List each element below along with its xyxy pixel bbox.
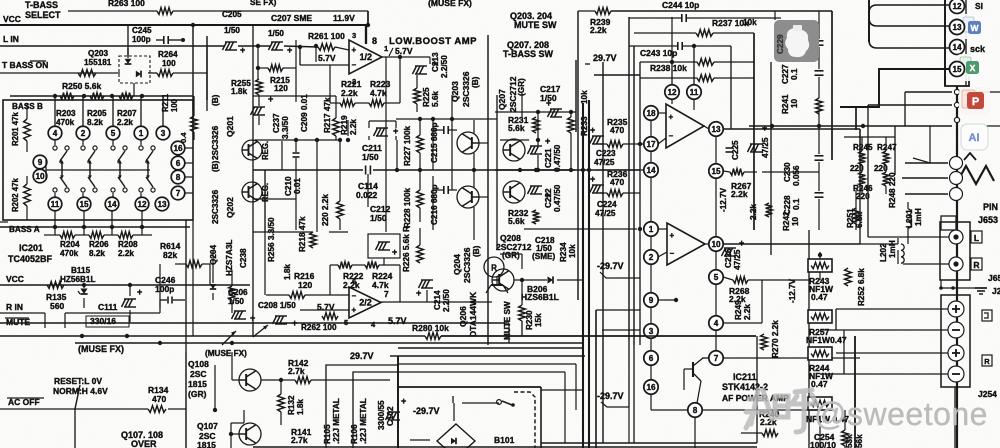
wire [582, 103, 584, 448]
wire [855, 107, 857, 130]
wire right pin column [715, 136, 717, 164]
wire vertical [185, 220, 187, 352]
pin 14 IC205 [644, 163, 658, 177]
wire 29.7 rail [495, 111, 576, 113]
svg-text:2.2k: 2.2k [743, 304, 752, 320]
wire [495, 169, 575, 171]
svg-text:R256 3.3/50: R256 3.3/50 [267, 217, 276, 262]
wire [702, 357, 709, 359]
wire branch pin 12 [869, 5, 949, 13]
pin 7 IC211 [709, 351, 723, 365]
wire branch pin 13 [869, 18, 949, 26]
svg-text:−: − [670, 249, 675, 258]
svg-text:2.2/50: 2.2/50 [442, 289, 451, 312]
svg-text:+: + [137, 287, 142, 297]
wire vertical [231, 270, 233, 286]
wire [904, 92, 906, 126]
svg-text:9: 9 [649, 296, 654, 305]
svg-text:16: 16 [646, 383, 656, 392]
svg-text:C214: C214 [433, 290, 442, 310]
svg-text:3.3/50: 3.3/50 [281, 116, 290, 139]
svg-text:5.7V: 5.7V [395, 46, 413, 56]
svg-text:2.2k: 2.2k [349, 119, 358, 135]
svg-text:8: 8 [693, 406, 698, 415]
wire vertical [281, 141, 283, 170]
svg-text:NORM:H 4.6V: NORM:H 4.6V [53, 386, 108, 396]
svg-text:C245: C245 [132, 26, 152, 35]
svg-text:R218 47k: R218 47k [298, 216, 307, 252]
svg-text:10k: 10k [568, 244, 577, 258]
wire [628, 340, 630, 407]
svg-text:R202 47k: R202 47k [11, 178, 20, 212]
svg-text:47/25: 47/25 [595, 209, 616, 218]
svg-text:10k: 10k [580, 90, 589, 104]
diode B206 [548, 276, 554, 283]
svg-text:-12.7V: -12.7V [719, 187, 728, 212]
pin 3 IC201 [156, 126, 170, 140]
icon AI [961, 124, 988, 150]
svg-text:11.9V: 11.9V [333, 13, 355, 23]
chevron mark [964, 153, 976, 160]
box outline left [753, 33, 755, 230]
svg-text:R226 5.6k R: R226 5.6k R [402, 226, 411, 272]
wire [398, 355, 585, 357]
svg-text:C244 10p: C244 10p [662, 0, 699, 10]
pin 15 redraw [950, 62, 965, 77]
svg-text:X: X [970, 63, 976, 73]
resistor R253 vertical [229, 286, 236, 300]
wire vertical [897, 250, 899, 264]
svg-text:REG.: REG. [261, 141, 270, 160]
wire [500, 139, 529, 141]
svg-text:1: 1 [139, 129, 144, 138]
RCA jack L [949, 230, 963, 244]
wire [261, 379, 281, 381]
pin 15 [950, 62, 965, 77]
wire [658, 299, 676, 301]
resistor R250 row b [90, 93, 104, 100]
wire pin11 feed [693, 46, 695, 85]
svg-text:R263 100: R263 100 [108, 0, 145, 8]
svg-text:R208: R208 [118, 240, 138, 249]
watermark zhihu sweetone [746, 390, 817, 432]
svg-text:R248 220: R248 220 [888, 172, 897, 208]
svg-text:+: + [669, 112, 674, 121]
wire [44, 234, 60, 236]
svg-text:R206: R206 [89, 240, 109, 249]
wire vertical [473, 120, 475, 133]
wire VCC bus [0, 24, 368, 26]
svg-text:1/50: 1/50 [268, 29, 284, 38]
svg-text:-29.7V: -29.7V [597, 391, 624, 401]
svg-text:-29.7V: -29.7V [597, 261, 624, 271]
terminal minus 1 [948, 322, 964, 338]
svg-text:Q108: Q108 [188, 359, 209, 369]
wire [577, 11, 579, 300]
svg-text:3: 3 [649, 327, 654, 336]
wire vertical [367, 174, 369, 207]
arrow MUSE 2 [222, 331, 236, 345]
RCA jack box [940, 222, 970, 280]
wire vertical [487, 35, 489, 345]
svg-text:47/25: 47/25 [761, 137, 770, 158]
wire branch pin 14 [869, 40, 949, 48]
svg-text:R250 5.6k: R250 5.6k [62, 81, 101, 91]
svg-text:7: 7 [384, 289, 389, 299]
svg-text:Q204: Q204 [452, 254, 462, 275]
svg-text:1/50: 1/50 [228, 297, 244, 306]
wire [596, 309, 640, 311]
svg-text:2SC3326: 2SC3326 [461, 71, 471, 107]
capacitor C214 [419, 280, 423, 288]
resistor on T BASS ON line [78, 70, 96, 77]
wire [859, 129, 861, 244]
svg-text:R238 10k: R238 10k [650, 63, 687, 73]
svg-text:DTA144WK: DTA144WK [468, 291, 478, 337]
label R box [971, 258, 982, 270]
svg-text:(GR): (GR) [188, 389, 207, 399]
wire [843, 330, 845, 353]
node diamond [954, 102, 959, 107]
junction [520, 278, 524, 282]
pin 4 IC205 [709, 316, 723, 330]
pin 1 IC201 [134, 126, 148, 140]
svg-text:R252 6.8k: R252 6.8k [857, 268, 866, 306]
pin 16 IC211 [644, 380, 658, 394]
svg-text:2.7k: 2.7k [291, 435, 308, 445]
wire opamp minus input [300, 64, 349, 66]
svg-text:2.2k: 2.2k [117, 118, 133, 127]
junction [418, 168, 422, 172]
wire [398, 363, 576, 365]
svg-text:PIN: PIN [983, 202, 998, 212]
wire vertical [206, 36, 208, 100]
wire vertical [859, 129, 861, 155]
svg-text:5.6k: 5.6k [508, 123, 525, 133]
wire vertical [335, 96, 337, 118]
boxed resistor R258 [808, 397, 832, 410]
arrow MUSE [253, 325, 268, 337]
svg-text:18: 18 [646, 109, 656, 118]
wire [836, 308, 948, 310]
svg-text:+: + [292, 318, 297, 328]
transistor Q216 stage [457, 186, 479, 208]
wire vertical [521, 93, 523, 117]
svg-text:R207: R207 [117, 109, 137, 118]
svg-text:Q207: Q207 [497, 89, 507, 110]
svg-text:16: 16 [173, 144, 183, 153]
svg-text:8.2k: 8.2k [89, 249, 105, 258]
svg-text:R280 10k: R280 10k [412, 323, 449, 333]
svg-text:Q201: Q201 [225, 116, 235, 137]
svg-text:R225: R225 [422, 87, 431, 107]
svg-text:100p: 100p [155, 284, 174, 294]
wire [819, 417, 821, 448]
svg-text:R IN: R IN [6, 302, 23, 312]
wire [230, 423, 232, 448]
transistor Q208 [492, 269, 514, 291]
svg-text:1/2: 1/2 [360, 52, 373, 62]
svg-text:2SC3326: 2SC3326 [211, 189, 220, 224]
svg-text:12: 12 [137, 200, 147, 209]
svg-text:C221: C221 [544, 148, 553, 168]
svg-text:29.7V: 29.7V [593, 53, 617, 63]
svg-text:56k: 56k [855, 434, 864, 448]
diode B204 [210, 284, 216, 289]
pin 10 IC201 [33, 169, 47, 183]
svg-text:(MUSE FX): (MUSE FX) [205, 349, 247, 358]
svg-text:MUTE SW: MUTE SW [514, 20, 557, 30]
wire [541, 389, 583, 391]
svg-text:+: + [416, 288, 421, 298]
svg-text:5.7V: 5.7V [318, 53, 336, 63]
terminal plus 2 [948, 345, 964, 361]
svg-text:VCC: VCC [3, 14, 21, 24]
svg-text:2SC3326: 2SC3326 [462, 247, 472, 283]
svg-text:10: 10 [711, 240, 721, 249]
svg-text:1: 1 [384, 44, 388, 53]
transistor Q215 stage [457, 132, 479, 154]
svg-text:5: 5 [714, 273, 719, 282]
svg-text:2.2/50: 2.2/50 [440, 55, 449, 78]
svg-text:15: 15 [952, 65, 962, 74]
svg-text:12: 12 [667, 88, 677, 97]
wire [602, 62, 604, 443]
svg-text:2/2: 2/2 [359, 298, 372, 308]
svg-text:0.47/50: 0.47/50 [553, 184, 562, 212]
pin 18 IC205 [644, 106, 658, 120]
wire vertical [252, 25, 254, 170]
svg-text:10k: 10k [743, 18, 757, 27]
svg-text:Q107: Q107 [197, 421, 218, 431]
svg-text:R106: R106 [350, 424, 359, 444]
svg-text:+: + [287, 45, 292, 55]
wire vertical right [854, 336, 856, 448]
svg-text:0.022: 0.022 [356, 190, 378, 200]
svg-text:TC4052BF: TC4052BF [8, 254, 53, 264]
svg-text:P: P [972, 96, 979, 108]
svg-text:560: 560 [50, 301, 64, 311]
svg-text:-29.7V: -29.7V [413, 406, 440, 416]
icon word [959, 14, 987, 39]
jack circle [950, 172, 963, 185]
pin 6 IC211 [644, 351, 658, 365]
wire [500, 253, 522, 255]
wire C243 feedback [730, 46, 732, 129]
pin 13 [950, 20, 965, 35]
svg-text:(SME): (SME) [532, 252, 555, 261]
junction top bus [53, 94, 57, 98]
icon excel [956, 54, 986, 81]
svg-text:8: 8 [176, 173, 181, 182]
svg-text:+: + [240, 45, 245, 55]
svg-text:R241: R241 [781, 94, 790, 114]
wire [650, 120, 652, 137]
svg-text:0.1: 0.1 [790, 68, 799, 80]
wire [231, 433, 239, 435]
speaker icon L [982, 310, 992, 321]
wire 29.7V rail [594, 74, 640, 76]
svg-text:MUTE SW: MUTE SW [503, 301, 512, 340]
pin 8 IC201 [171, 170, 185, 184]
svg-text:R211: R211 [161, 93, 170, 112]
svg-text:4: 4 [714, 319, 719, 328]
wire R280 to right [441, 335, 756, 337]
pin 7 IC201 [171, 186, 185, 200]
svg-text:C227: C227 [781, 64, 790, 84]
op-amp IC205a [666, 104, 704, 148]
wire L IN [0, 45, 225, 47]
wire [397, 356, 399, 448]
svg-text:R203: R203 [56, 109, 76, 118]
capacitor C207 symbol [269, 42, 273, 50]
IC IC201 body [3, 100, 193, 220]
wire [774, 11, 776, 20]
op-amp IC205b [667, 223, 705, 265]
svg-text:0.47: 0.47 [811, 379, 828, 389]
junction [534, 168, 538, 172]
terminal plus 1 [948, 301, 964, 317]
speaker icon R [982, 355, 992, 366]
pin 1 IC205 [644, 222, 658, 236]
svg-text:VCC: VCC [6, 274, 24, 284]
svg-text:C208 1/50: C208 1/50 [258, 301, 296, 310]
wire [398, 347, 583, 349]
svg-text:29.7V: 29.7V [350, 351, 374, 361]
wire vertical [540, 387, 542, 448]
svg-text:C224: C224 [597, 200, 617, 209]
terminal minus 2 [948, 366, 964, 382]
wire rail y119 [396, 118, 497, 120]
svg-text:@sweetone: @sweetone [814, 396, 988, 432]
wire vertical [929, 126, 931, 163]
pin 5 IC205 [709, 270, 723, 284]
wire [762, 279, 809, 281]
transistor in IC211 [692, 362, 694, 377]
svg-text:(MUSE FX): (MUSE FX) [78, 344, 124, 354]
svg-text:T-BASS: T-BASS [25, 0, 58, 10]
svg-text:L: L [974, 233, 979, 243]
svg-text:470k: 470k [56, 118, 75, 127]
svg-text:L202: L202 [879, 243, 888, 262]
svg-text:.22J METAL: .22J METAL [359, 398, 368, 444]
wire [818, 11, 820, 39]
svg-text:6: 6 [649, 354, 654, 363]
wire [756, 336, 758, 443]
svg-text:(MUSE FX): (MUSE FX) [428, 0, 472, 8]
box outline right [831, 11, 833, 160]
junction [191, 23, 195, 27]
capacitor C205 [223, 42, 227, 50]
wire [913, 158, 930, 163]
svg-text:470: 470 [152, 394, 166, 404]
switch S101 [497, 400, 502, 405]
svg-text:1/50: 1/50 [362, 152, 379, 162]
svg-text:.22J METAL: .22J METAL [332, 398, 341, 444]
pin 13 IC205 [709, 122, 723, 136]
junction [128, 283, 132, 287]
wire vertical [295, 199, 297, 230]
wire vertical [496, 95, 498, 250]
svg-text:1.8k: 1.8k [296, 399, 305, 415]
wire [54, 211, 56, 235]
wire vertical [252, 170, 254, 337]
wire [954, 387, 956, 448]
wire [253, 198, 296, 200]
svg-text:1mH: 1mH [888, 240, 897, 258]
svg-text:2.2k: 2.2k [118, 249, 134, 258]
capacitor syms [815, 155, 824, 157]
svg-text:L201: L201 [905, 209, 914, 228]
junction [298, 45, 302, 49]
svg-text:W: W [970, 23, 979, 33]
svg-text:B101: B101 [494, 435, 515, 445]
svg-text:13: 13 [711, 125, 721, 134]
svg-text:10: 10 [791, 216, 800, 226]
wire [462, 402, 499, 404]
pin 17 IC205 [644, 137, 658, 151]
svg-text:C210: C210 [284, 176, 293, 196]
small box bottom [941, 216, 956, 230]
boxed resistor R257 [808, 310, 832, 323]
svg-text:C225: C225 [731, 140, 740, 160]
svg-text:7: 7 [176, 189, 181, 198]
svg-text:C223: C223 [596, 149, 616, 158]
jack circle [950, 157, 963, 170]
svg-text:B115: B115 [71, 266, 91, 275]
pin 12 IC205 [665, 85, 679, 99]
wire output [382, 56, 430, 58]
transistor Q206 circled R [484, 257, 504, 277]
svg-text:3: 3 [352, 31, 356, 40]
svg-text:R: R [984, 357, 990, 366]
diode in bridge [451, 438, 456, 444]
svg-text:+: + [590, 174, 595, 184]
ground sym [975, 287, 987, 289]
svg-text:1815: 1815 [188, 379, 207, 389]
svg-text:2.7k: 2.7k [288, 366, 305, 376]
svg-text:OVER: OVER [131, 439, 157, 448]
transistor Q232 [503, 181, 525, 203]
node diamond [954, 89, 959, 94]
svg-text:+: + [352, 305, 357, 314]
wire center line [253, 169, 363, 171]
svg-text:R132: R132 [287, 395, 296, 415]
svg-text:HZS7A3L: HZS7A3L [225, 240, 234, 276]
svg-text:5.6k: 5.6k [431, 91, 440, 107]
svg-text:0.47: 0.47 [811, 292, 828, 302]
wire [602, 329, 640, 331]
wire box [326, 365, 398, 392]
svg-text:4.7k: 4.7k [372, 280, 389, 290]
svg-text:R105: R105 [323, 424, 332, 444]
svg-text:AI: AI [969, 132, 980, 144]
pin 3 IC205 [644, 324, 658, 338]
wire AC OFF [0, 408, 148, 410]
svg-text:1.8k: 1.8k [231, 86, 248, 96]
wire MUTE bus [0, 322, 509, 324]
svg-text:+: + [546, 98, 551, 108]
wire [650, 365, 652, 380]
wire [671, 99, 673, 104]
wire C244 line [629, 17, 681, 19]
svg-text:6: 6 [176, 159, 181, 168]
pin 14 [950, 40, 965, 55]
icon powerpoint [959, 87, 990, 115]
svg-text:0.056: 0.056 [792, 165, 801, 186]
svg-text:SE FX): SE FX) [250, 0, 277, 7]
junction [256, 44, 260, 48]
